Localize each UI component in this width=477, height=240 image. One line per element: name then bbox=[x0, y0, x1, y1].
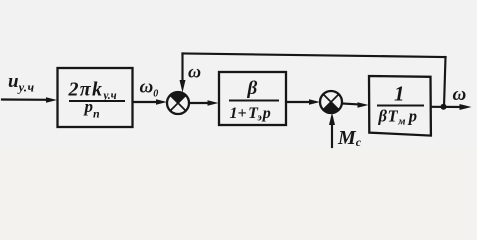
wire block2 to summer S2 bbox=[286, 101, 311, 103]
block W1: 2 pi k_uch / p_p bbox=[58, 68, 133, 127]
wire feedback top horizontal bbox=[183, 54, 446, 58]
wire summer S2 to block3 bbox=[342, 104, 360, 105]
svg-text:ω: ω bbox=[453, 84, 467, 105]
svg-text:βTм p: βTм p bbox=[378, 107, 418, 128]
wire summer S1 to block2 bbox=[189, 102, 210, 104]
wire block3 to output bbox=[431, 106, 465, 108]
arrowhead feedback into S1 top bbox=[180, 80, 186, 93]
arrowhead into summer S2 bbox=[309, 99, 320, 105]
wire feedback left vertical down to S1 bbox=[181, 54, 183, 85]
summer S1 (circle with X, top sector filled) bbox=[167, 92, 189, 114]
svg-text:1+Tэp: 1+Tэp bbox=[230, 105, 271, 124]
svg-text:β: β bbox=[247, 78, 258, 99]
arrowhead into summer S1 bbox=[156, 99, 167, 105]
wire block1 to summer S1 bbox=[133, 101, 159, 103]
arrowhead into block2 bbox=[208, 100, 219, 106]
wire input u to block1 bbox=[2, 98, 48, 100]
svg-text:1: 1 bbox=[394, 82, 405, 106]
svg-text:ω: ω bbox=[188, 62, 201, 82]
block W3: 1 / (beta T_m p) bbox=[369, 76, 431, 136]
wire feedback right vertical bbox=[444, 57, 446, 107]
node junction dot on output bbox=[441, 104, 447, 110]
arrowhead into block3 bbox=[358, 102, 369, 108]
summer S2 (circle with X, bottom sector filled) bbox=[320, 91, 342, 113]
wire disturbance Mc vertical bbox=[331, 118, 333, 147]
arrowhead output omega bbox=[460, 104, 472, 110]
arrowhead Mc into S2 bottom bbox=[329, 113, 335, 126]
block W2: beta / (1 + T_e p) bbox=[219, 72, 286, 125]
arrowhead into block1 bbox=[46, 97, 57, 103]
